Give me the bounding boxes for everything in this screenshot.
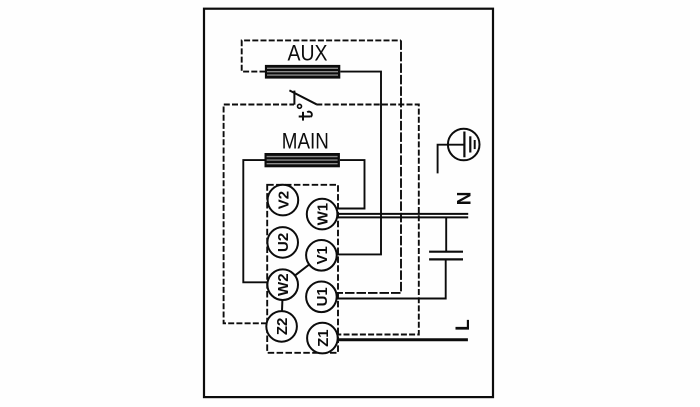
wire: switch circuit dashed, terminal Z2 up to switch left contact (224, 105, 294, 324)
wire: AUX dashed loop from AUX winding left over the top (242, 40, 401, 71)
jumper wire W2 to V1 (diagonal) (295, 265, 309, 276)
terminal V1 (306, 240, 337, 271)
jumper wire W2 to Z2 (vertical link) (281, 300, 283, 311)
terminal Z2 (266, 311, 297, 342)
diagram frame (decorative) (204, 9, 493, 397)
wire: MAIN winding left to terminal W2 (solid) (243, 160, 267, 282)
svg-text:N: N (455, 192, 476, 206)
svg-text:U1: U1 (314, 287, 331, 306)
wire: switch circuit dashed, switch right contact down to terminal Z1 (316, 105, 419, 335)
node L: supply line from Z1 (338, 338, 468, 341)
svg-text:Z1: Z1 (315, 329, 332, 347)
svg-text:Z2: Z2 (274, 318, 291, 336)
wire: AUX dashed loop right vertical down to terminal U1 (337, 40, 401, 293)
terminal W1 (307, 199, 338, 230)
svg-text:L: L (453, 319, 474, 331)
terminal V2 (268, 185, 299, 216)
svg-text:W1: W1 (315, 203, 332, 226)
terminal U2 (267, 227, 298, 258)
capacitor C (run capacitor plates) (429, 252, 463, 260)
wire: ground stem (438, 145, 464, 174)
node N: supply line (double) from W1 (337, 214, 468, 218)
terminal block (dashed outline) (267, 185, 338, 353)
ground (protective earth symbol in circle) (438, 129, 480, 174)
svg-text:V2: V2 (275, 191, 292, 209)
svg-text:W2: W2 (275, 273, 292, 296)
svg-text:U2: U2 (275, 233, 292, 252)
svg-text:V1: V1 (314, 246, 331, 264)
svg-text:MAIN: MAIN (282, 128, 329, 153)
wire: AUX winding right to terminal V1 (solid) (337, 72, 381, 255)
wire: MAIN winding right to terminal W1 (solid) (338, 160, 365, 208)
terminal W2 (267, 269, 298, 300)
terminal U1 (306, 282, 337, 313)
wire: capacitor top plate to N line (445, 217, 447, 251)
centrifugal switch S (contact tick, blade, pivot, actuator hook) (289, 90, 316, 120)
svg-text:AUX: AUX (288, 40, 328, 65)
wire: terminal U1 to capacitor bottom plate (solid) (337, 260, 446, 299)
terminal Z1 (307, 323, 338, 354)
winding MAIN (label + coil bar) (265, 128, 340, 167)
winding AUX (label + coil bar) (265, 40, 340, 78)
